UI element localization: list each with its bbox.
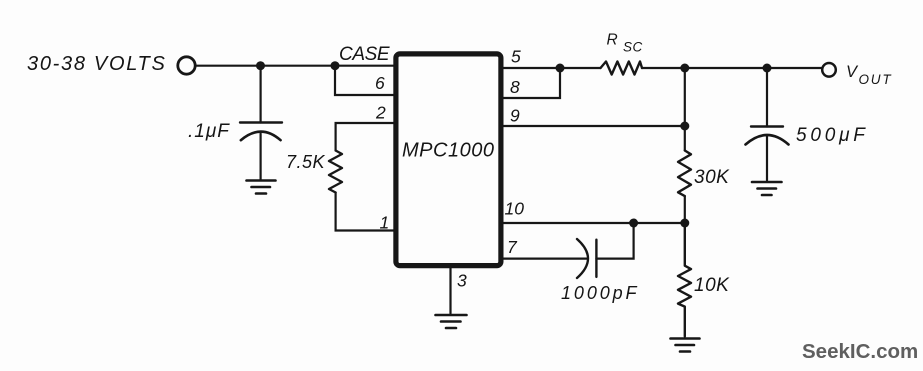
wire C4 to junction (596, 223, 633, 259)
resistor Rsc (601, 62, 643, 75)
svg-text:10K: 10K (694, 275, 730, 296)
junction at divider top (680, 64, 689, 73)
capacitor C1 .1uF (240, 123, 282, 180)
capacitor C4 1000pF (577, 239, 596, 278)
junction at pin6 tap (331, 61, 340, 70)
wire pin2 lead (336, 123, 394, 151)
junction pin9/divider (680, 122, 689, 131)
svg-text:5: 5 (511, 47, 521, 67)
junction pin5/pin8 (556, 64, 565, 73)
op-amp regulator U1 MPC1000 (396, 54, 501, 266)
output terminal (822, 63, 836, 77)
capacitor C3 500uF (746, 127, 789, 181)
junction at C1 tap (256, 61, 265, 70)
svg-text:OUT: OUT (859, 72, 893, 87)
junction divider mid (680, 219, 689, 228)
wire pin10 lead (502, 222, 685, 224)
svg-text:500μF: 500μF (796, 125, 869, 146)
svg-text:7.5K: 7.5K (286, 152, 326, 172)
svg-text:.1μF: .1μF (188, 121, 230, 142)
svg-text:8: 8 (510, 77, 520, 97)
wire input bus (197, 65, 395, 67)
svg-text:V: V (846, 63, 859, 81)
node output label Vout (846, 63, 892, 87)
svg-text:9: 9 (510, 106, 520, 126)
wire C3 upper lead (766, 68, 768, 127)
wire pin8 riser (502, 68, 560, 98)
ground at C1 (247, 181, 276, 194)
wire C1 upper lead (260, 66, 262, 123)
resistor R3 10K (678, 223, 691, 337)
svg-text:2: 2 (375, 103, 386, 123)
ground at pin3 (436, 315, 467, 328)
wire pin6 riser (335, 66, 394, 95)
wire pin5 to Rsc (502, 67, 601, 69)
ground at C3 (752, 182, 782, 195)
wire pin3 lead (449, 267, 451, 314)
wire pin7 lead (502, 258, 587, 260)
svg-text:MPC1000: MPC1000 (402, 140, 494, 162)
wire pin1 lead (336, 193, 394, 231)
junction pin10/C4 (629, 219, 638, 228)
svg-text:R: R (607, 32, 618, 49)
resistor R1 7.5K (329, 151, 342, 193)
svg-text:30K: 30K (694, 167, 730, 188)
svg-text:3: 3 (457, 271, 467, 291)
wire Rsc to Vout (642, 67, 822, 69)
svg-text:10: 10 (505, 199, 525, 219)
svg-text:30-38 VOLTS: 30-38 VOLTS (27, 53, 167, 75)
svg-text:7: 7 (507, 237, 518, 257)
junction at C3 tap (763, 64, 772, 73)
wire 30K to junction (684, 196, 686, 223)
watermark SeekIC.com (802, 340, 918, 364)
svg-text:1000pF: 1000pF (561, 283, 639, 303)
svg-text:CASE: CASE (339, 44, 390, 65)
value label Rsc (607, 32, 643, 55)
input terminal (178, 57, 195, 74)
svg-text:6: 6 (375, 73, 385, 93)
wire divider upper (684, 68, 686, 151)
svg-text:1: 1 (380, 213, 390, 233)
wire pin9 lead (502, 125, 685, 127)
ground at 10K (671, 339, 700, 352)
resistor R2 30K (678, 151, 691, 197)
svg-text:SC: SC (623, 40, 643, 55)
